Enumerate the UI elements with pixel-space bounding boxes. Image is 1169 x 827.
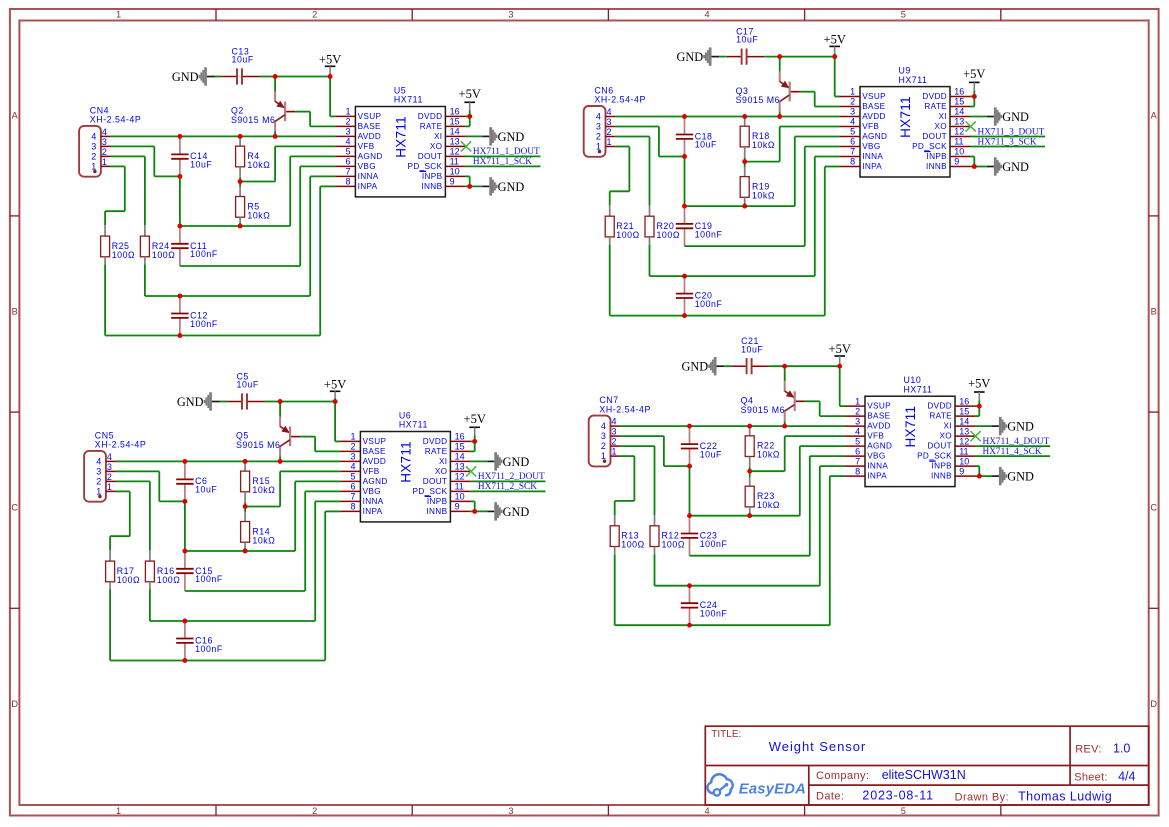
connector CN4 XH-2.54-4P [79, 105, 141, 176]
wire VBG row to IC pin6 [685, 245, 805, 247]
capacitor C13 10uF [215, 46, 260, 84]
capacitor C16 100nF [176, 621, 223, 661]
svg-text:3: 3 [508, 10, 513, 20]
svg-text:DVDD: DVDD [922, 92, 947, 101]
svg-text:A: A [12, 110, 19, 120]
frame row letters right [1150, 110, 1157, 708]
node C12 bottom junction [177, 333, 182, 338]
svg-text:HX711: HX711 [394, 95, 423, 105]
svg-text:GND: GND [1002, 160, 1029, 174]
ic U9 HX711 [840, 65, 970, 177]
svg-text:Sheet:: Sheet: [1074, 772, 1108, 784]
power +5V (right) [459, 87, 481, 117]
svg-text:B: B [1151, 307, 1157, 317]
resistor R13 100R [610, 515, 645, 625]
svg-text:GND: GND [1002, 110, 1029, 124]
svg-text:RATE: RATE [425, 447, 448, 456]
resistor R22 10k [745, 426, 780, 471]
svg-text:INNA: INNA [358, 172, 379, 181]
svg-text:100Ω: 100Ω [616, 230, 639, 240]
svg-text:1: 1 [601, 451, 606, 461]
wire base to IC pin2 [800, 91, 815, 93]
svg-text:3: 3 [102, 137, 107, 147]
svg-text:VSUP: VSUP [862, 92, 886, 101]
ground GND at XI [970, 107, 1029, 125]
svg-text:4: 4 [705, 806, 710, 816]
svg-text:XI: XI [434, 132, 442, 141]
node Q emitter junction [777, 54, 782, 59]
ground CN6-area left GND symbol [676, 47, 719, 65]
svg-text:RATE: RATE [420, 122, 443, 131]
node C12 top junction [682, 274, 687, 279]
wire AVDD row [620, 425, 845, 427]
ground CN5-area left GND symbol [177, 392, 220, 410]
wire INPB-INNB tie [470, 500, 474, 502]
svg-text:100nF: 100nF [195, 644, 223, 654]
ground GND at XI [465, 127, 524, 145]
svg-text:AGND: AGND [862, 132, 887, 141]
svg-text:6: 6 [351, 482, 356, 492]
svg-text:10uF: 10uF [741, 344, 763, 354]
svg-text:9: 9 [455, 502, 460, 512]
svg-text:DOUT: DOUT [423, 477, 448, 486]
svg-text:100nF: 100nF [700, 539, 728, 549]
node DVDD junction [977, 404, 982, 409]
svg-text:HX711: HX711 [399, 420, 428, 430]
no-connect cross XO [971, 431, 981, 441]
svg-text:PD_SCK: PD_SCK [917, 452, 952, 461]
svg-text:1: 1 [855, 396, 860, 406]
svg-text:14: 14 [455, 452, 465, 462]
svg-text:10kΩ: 10kΩ [252, 485, 275, 495]
wire top supply row [764, 56, 835, 58]
svg-text:12: 12 [455, 472, 465, 482]
svg-text:100Ω: 100Ω [621, 540, 644, 550]
svg-text:D: D [1150, 699, 1157, 709]
power +5V (right) [968, 377, 990, 407]
svg-text:S9015 M6: S9015 M6 [231, 115, 276, 125]
svg-text:GND: GND [503, 455, 530, 469]
svg-text:INNA: INNA [867, 462, 888, 471]
svg-text:BASE: BASE [862, 102, 885, 111]
svg-text:S9015 M6: S9015 M6 [236, 440, 281, 450]
svg-text:HX711: HX711 [393, 116, 408, 158]
wire INPB-INNB tie [970, 156, 974, 158]
wire net HX711_2_SCK [470, 490, 545, 492]
wire VBG row to IC pin6 [690, 555, 810, 557]
node DVDD junction [972, 94, 977, 99]
svg-text:PD_SCK: PD_SCK [408, 162, 443, 171]
svg-text:9: 9 [959, 466, 964, 476]
svg-text:1: 1 [612, 447, 617, 457]
ground CN7-area left GND symbol [681, 357, 724, 375]
connector CN5 XH-2.54-4P [84, 430, 146, 501]
wire top supply row [260, 76, 331, 78]
svg-text:GND: GND [1007, 420, 1034, 434]
wire top supply row [769, 365, 840, 367]
power +5V (left) [824, 33, 846, 57]
svg-text:15: 15 [959, 406, 969, 416]
transistor Q4 S9015 [741, 366, 805, 426]
svg-text:AVDD: AVDD [867, 422, 891, 431]
resistor R12 100R [650, 515, 685, 586]
wire base to IC pin2 [805, 400, 820, 402]
wire +5V to VSUP [834, 57, 836, 97]
svg-text:6: 6 [346, 157, 351, 167]
svg-text:4: 4 [596, 111, 601, 121]
svg-text:15: 15 [455, 442, 465, 452]
node Cmid bottom junction [687, 464, 692, 469]
svg-text:RATE: RATE [929, 412, 952, 421]
svg-text:100nF: 100nF [700, 609, 728, 619]
svg-text:10: 10 [954, 147, 964, 157]
ground GND at INNB [975, 467, 1034, 485]
wire INPB-INNB tie [465, 175, 469, 177]
svg-text:4: 4 [601, 421, 606, 431]
svg-text:INPB: INPB [931, 462, 952, 471]
svg-text:3: 3 [850, 107, 855, 117]
svg-text:100nF: 100nF [190, 249, 218, 259]
svg-text:11: 11 [959, 446, 968, 456]
wire CN pin3 to AGND net [116, 470, 160, 472]
wire +5V to VSUP [334, 402, 336, 442]
capacitor C24 100nF [681, 586, 728, 626]
node Q emitter junction [273, 74, 278, 79]
svg-text:8: 8 [351, 502, 356, 512]
wire AGND row to IC pin5 [685, 205, 795, 207]
wire CN pin2 to R right top [615, 136, 649, 138]
svg-text:S9015 M6: S9015 M6 [736, 95, 781, 105]
no-connect cross XO [966, 121, 976, 131]
capacitor C17 10uF [719, 26, 764, 64]
svg-text:Date:: Date: [816, 791, 844, 803]
svg-text:13: 13 [954, 117, 964, 127]
svg-text:VBG: VBG [358, 162, 376, 171]
svg-text:HX711_4_SCK: HX711_4_SCK [983, 447, 1042, 457]
svg-text:2: 2 [596, 131, 601, 141]
svg-text:8: 8 [850, 157, 855, 167]
wire CN pin1 to R left top [620, 455, 634, 457]
node R divider midpoint [243, 504, 248, 509]
svg-text:DVDD: DVDD [927, 402, 952, 411]
svg-text:10kΩ: 10kΩ [757, 500, 780, 510]
resistor R19 10k [740, 162, 775, 207]
svg-text:XH-2.54-4P: XH-2.54-4P [95, 440, 146, 450]
wire AVDD row [111, 135, 336, 137]
svg-text:VBG: VBG [867, 452, 885, 461]
svg-text:4: 4 [850, 117, 855, 127]
node +5V junction [832, 54, 837, 59]
svg-text:13: 13 [455, 462, 465, 472]
svg-text:100nF: 100nF [195, 574, 223, 584]
node +5V junction [328, 74, 333, 79]
wire CN pin3 to AGND net [111, 145, 155, 147]
svg-text:2: 2 [346, 117, 351, 127]
ic U10 HX711 [845, 375, 975, 487]
power +5V (right) [963, 67, 985, 97]
svg-text:4: 4 [346, 137, 351, 147]
svg-text:4: 4 [91, 131, 96, 141]
svg-text:HX711: HX711 [898, 96, 913, 138]
node Cmid bottom junction [682, 154, 687, 159]
svg-text:TITLE:: TITLE: [711, 729, 741, 740]
svg-text:+5V: +5V [319, 53, 341, 67]
wire INNA row to IC pin7 [145, 295, 310, 297]
svg-text:INNB: INNB [926, 162, 947, 171]
svg-text:2: 2 [312, 806, 317, 816]
svg-text:DOUT: DOUT [922, 132, 947, 141]
node +5V junction [333, 399, 338, 404]
svg-text:+5V: +5V [459, 87, 481, 101]
svg-text:XI: XI [944, 422, 952, 431]
svg-text:1: 1 [116, 10, 121, 20]
resistor R18 10k [740, 116, 775, 161]
svg-text:AVDD: AVDD [862, 112, 886, 121]
svg-text:2: 2 [102, 147, 107, 157]
node R divider midpoint [747, 469, 752, 474]
svg-text:S9015 M6: S9015 M6 [741, 405, 786, 415]
wire DVDD-RATE tie [470, 440, 474, 442]
svg-text:16: 16 [954, 87, 964, 97]
svg-text:INPA: INPA [363, 507, 383, 516]
wire CN pin3 to AGND net [620, 435, 664, 437]
svg-text:10kΩ: 10kΩ [752, 190, 775, 200]
svg-text:11: 11 [450, 157, 459, 167]
svg-text:12: 12 [954, 127, 964, 137]
svg-text:4: 4 [612, 417, 617, 427]
svg-text:5: 5 [855, 436, 860, 446]
wire +5V to VSUP [839, 366, 841, 406]
ground GND at XI [470, 452, 529, 470]
svg-text:1: 1 [607, 137, 612, 147]
svg-text:HX711_3_DOUT: HX711_3_DOUT [978, 127, 1045, 137]
wire base to IC pin2 [300, 436, 315, 438]
svg-text:10uF: 10uF [700, 449, 722, 459]
svg-text:15: 15 [450, 117, 460, 127]
node C12 bottom junction [182, 658, 187, 663]
svg-text:100Ω: 100Ω [152, 250, 175, 260]
ground GND at INNB [470, 502, 529, 520]
wire INPB-INNB tie [975, 465, 979, 467]
svg-text:4: 4 [107, 452, 112, 462]
svg-text:11: 11 [455, 482, 464, 492]
wire AGND row to IC pin5 [180, 225, 290, 227]
svg-text:VBG: VBG [363, 487, 381, 496]
svg-text:AVDD: AVDD [363, 457, 387, 466]
svg-text:XO: XO [939, 432, 952, 441]
svg-text:INPB: INPB [422, 172, 443, 181]
node AVDD junctions [687, 424, 787, 429]
power +5V (left) [319, 53, 341, 77]
svg-text:B: B [12, 307, 18, 317]
svg-text:10kΩ: 10kΩ [252, 535, 275, 545]
node AGND junctions [177, 224, 242, 229]
svg-text:2: 2 [351, 442, 356, 452]
node AVDD junctions [177, 134, 277, 139]
svg-text:2: 2 [607, 127, 612, 137]
svg-text:AVDD: AVDD [358, 132, 382, 141]
svg-text:GND: GND [503, 505, 530, 519]
svg-text:PD_SCK: PD_SCK [413, 487, 448, 496]
svg-text:Drawn By:: Drawn By: [955, 791, 1009, 803]
svg-text:GND: GND [1007, 470, 1034, 484]
svg-text:10uF: 10uF [232, 55, 254, 65]
wire Cmid bottom to AGND row [684, 157, 686, 207]
svg-text:14: 14 [450, 127, 460, 137]
wire VFB route [745, 161, 780, 163]
wire net HX711_1_DOUT [465, 155, 540, 157]
svg-text:XH-2.54-4P: XH-2.54-4P [90, 115, 141, 125]
ground GND at XI [975, 417, 1034, 435]
capacitor C12 100nF [171, 296, 218, 336]
svg-text:10kΩ: 10kΩ [247, 210, 270, 220]
svg-text:VSUP: VSUP [358, 112, 382, 121]
wire VBG row to IC pin6 [180, 265, 300, 267]
svg-text:5: 5 [850, 127, 855, 137]
resistor R15 10k [241, 461, 276, 506]
svg-text:GND: GND [498, 130, 525, 144]
capacitor C20 100nF [676, 276, 723, 316]
svg-text:+5V: +5V [963, 67, 985, 81]
svg-text:4: 4 [607, 107, 612, 117]
node R divider midpoint [238, 179, 243, 184]
svg-text:HX711: HX711 [398, 441, 413, 483]
svg-text:3: 3 [607, 117, 612, 127]
title block frame [705, 726, 1148, 805]
svg-text:4/4: 4/4 [1118, 770, 1135, 784]
node INNB junction [472, 509, 477, 514]
node C12 bottom junction [682, 313, 687, 318]
ic U5 HX711 [335, 85, 465, 197]
node DVDD junction [467, 114, 472, 119]
wire AVDD row [615, 115, 840, 117]
svg-text:10uF: 10uF [695, 140, 717, 150]
svg-text:5: 5 [901, 806, 906, 816]
node R divider midpoint [742, 159, 747, 164]
svg-text:5: 5 [901, 10, 906, 20]
capacitor C23 100nF [681, 516, 728, 556]
svg-text:+5V: +5V [324, 378, 346, 392]
node DVDD junction [472, 439, 477, 444]
svg-text:14: 14 [959, 416, 969, 426]
svg-text:C: C [1150, 503, 1157, 513]
svg-text:100Ω: 100Ω [662, 540, 685, 550]
wire net HX711_2_DOUT [470, 480, 545, 482]
wire Cmid bottom to AGND row [184, 501, 186, 551]
resistor R25 100R [101, 225, 136, 335]
resistor R16 100R [145, 550, 180, 621]
svg-text:HX711_4_DOUT: HX711_4_DOUT [983, 437, 1050, 447]
svg-text:4: 4 [705, 10, 710, 20]
svg-text:Weight Sensor: Weight Sensor [769, 739, 866, 754]
wire CN pin2 to R right top [111, 155, 145, 157]
svg-text:1: 1 [116, 806, 121, 816]
wire DVDD-RATE tie [970, 96, 974, 98]
frame column numbers top [116, 10, 906, 20]
svg-text:10kΩ: 10kΩ [247, 160, 270, 170]
svg-text:12: 12 [959, 436, 969, 446]
svg-text:HX711_1_DOUT: HX711_1_DOUT [473, 147, 540, 157]
svg-text:6: 6 [850, 137, 855, 147]
svg-text:2: 2 [312, 10, 317, 20]
wire Cmid bottom to AGND row [179, 176, 181, 226]
node C12 top junction [182, 619, 187, 624]
svg-text:10: 10 [455, 492, 465, 502]
ground GND at INNB [970, 157, 1029, 175]
svg-text:INNB: INNB [426, 507, 447, 516]
svg-text:7: 7 [855, 456, 860, 466]
capacitor C22 10uF [681, 426, 722, 466]
svg-text:VSUP: VSUP [363, 437, 387, 446]
svg-text:VBG: VBG [862, 142, 880, 151]
capacitor C6 10uF [176, 461, 217, 501]
capacitor C19 100nF [676, 206, 723, 246]
svg-text:DOUT: DOUT [418, 152, 443, 161]
svg-text:D: D [11, 699, 18, 709]
svg-text:13: 13 [450, 137, 460, 147]
svg-text:2: 2 [601, 441, 606, 451]
svg-text:XO: XO [934, 122, 947, 131]
svg-text:eliteSCHW31N: eliteSCHW31N [882, 768, 966, 782]
node C12 top junction [687, 583, 692, 588]
node INNB junction [467, 184, 472, 189]
svg-text:1: 1 [107, 482, 112, 492]
svg-text:DOUT: DOUT [927, 442, 952, 451]
resistor R17 100R [106, 550, 141, 660]
svg-text:3: 3 [96, 466, 101, 476]
svg-text:VFB: VFB [358, 142, 375, 151]
svg-text:INNA: INNA [862, 152, 883, 161]
svg-text:100Ω: 100Ω [157, 575, 180, 585]
svg-text:GND: GND [177, 395, 204, 409]
svg-text:3: 3 [508, 806, 513, 816]
resistor R21 100R [605, 205, 640, 315]
svg-text:XO: XO [430, 142, 443, 151]
wire net HX711_3_SCK [970, 146, 1045, 148]
node AGND junctions [682, 204, 747, 209]
svg-text:5: 5 [346, 147, 351, 157]
svg-text:3: 3 [855, 416, 860, 426]
svg-text:INPA: INPA [358, 182, 378, 191]
resistor R4 10k [236, 136, 271, 181]
svg-text:HX711_2_SCK: HX711_2_SCK [478, 482, 537, 492]
svg-text:VSUP: VSUP [867, 402, 891, 411]
svg-text:9: 9 [954, 157, 959, 167]
wire CN pin1 to R left top [111, 165, 125, 167]
svg-text:2: 2 [96, 476, 101, 486]
node AVDD junctions [182, 459, 282, 464]
node C12 top junction [177, 294, 182, 299]
svg-text:GND: GND [172, 70, 199, 84]
svg-text:VFB: VFB [363, 467, 380, 476]
power +5V (left) [324, 378, 346, 402]
svg-text:1: 1 [102, 157, 107, 167]
no-connect cross XO [466, 466, 476, 476]
svg-text:12: 12 [450, 147, 460, 157]
svg-text:100Ω: 100Ω [657, 230, 680, 240]
wire INNA row to IC pin7 [655, 585, 820, 587]
svg-text:AGND: AGND [867, 442, 892, 451]
svg-text:10uF: 10uF [736, 35, 758, 45]
capacitor C11 100nF [171, 226, 218, 266]
node Cmid bottom junction [182, 499, 187, 504]
svg-text:1: 1 [351, 432, 356, 442]
svg-text:13: 13 [959, 426, 969, 436]
svg-text:3: 3 [107, 462, 112, 472]
svg-text:Company:: Company: [816, 770, 869, 782]
svg-text:4: 4 [351, 462, 356, 472]
svg-text:10kΩ: 10kΩ [752, 140, 775, 150]
